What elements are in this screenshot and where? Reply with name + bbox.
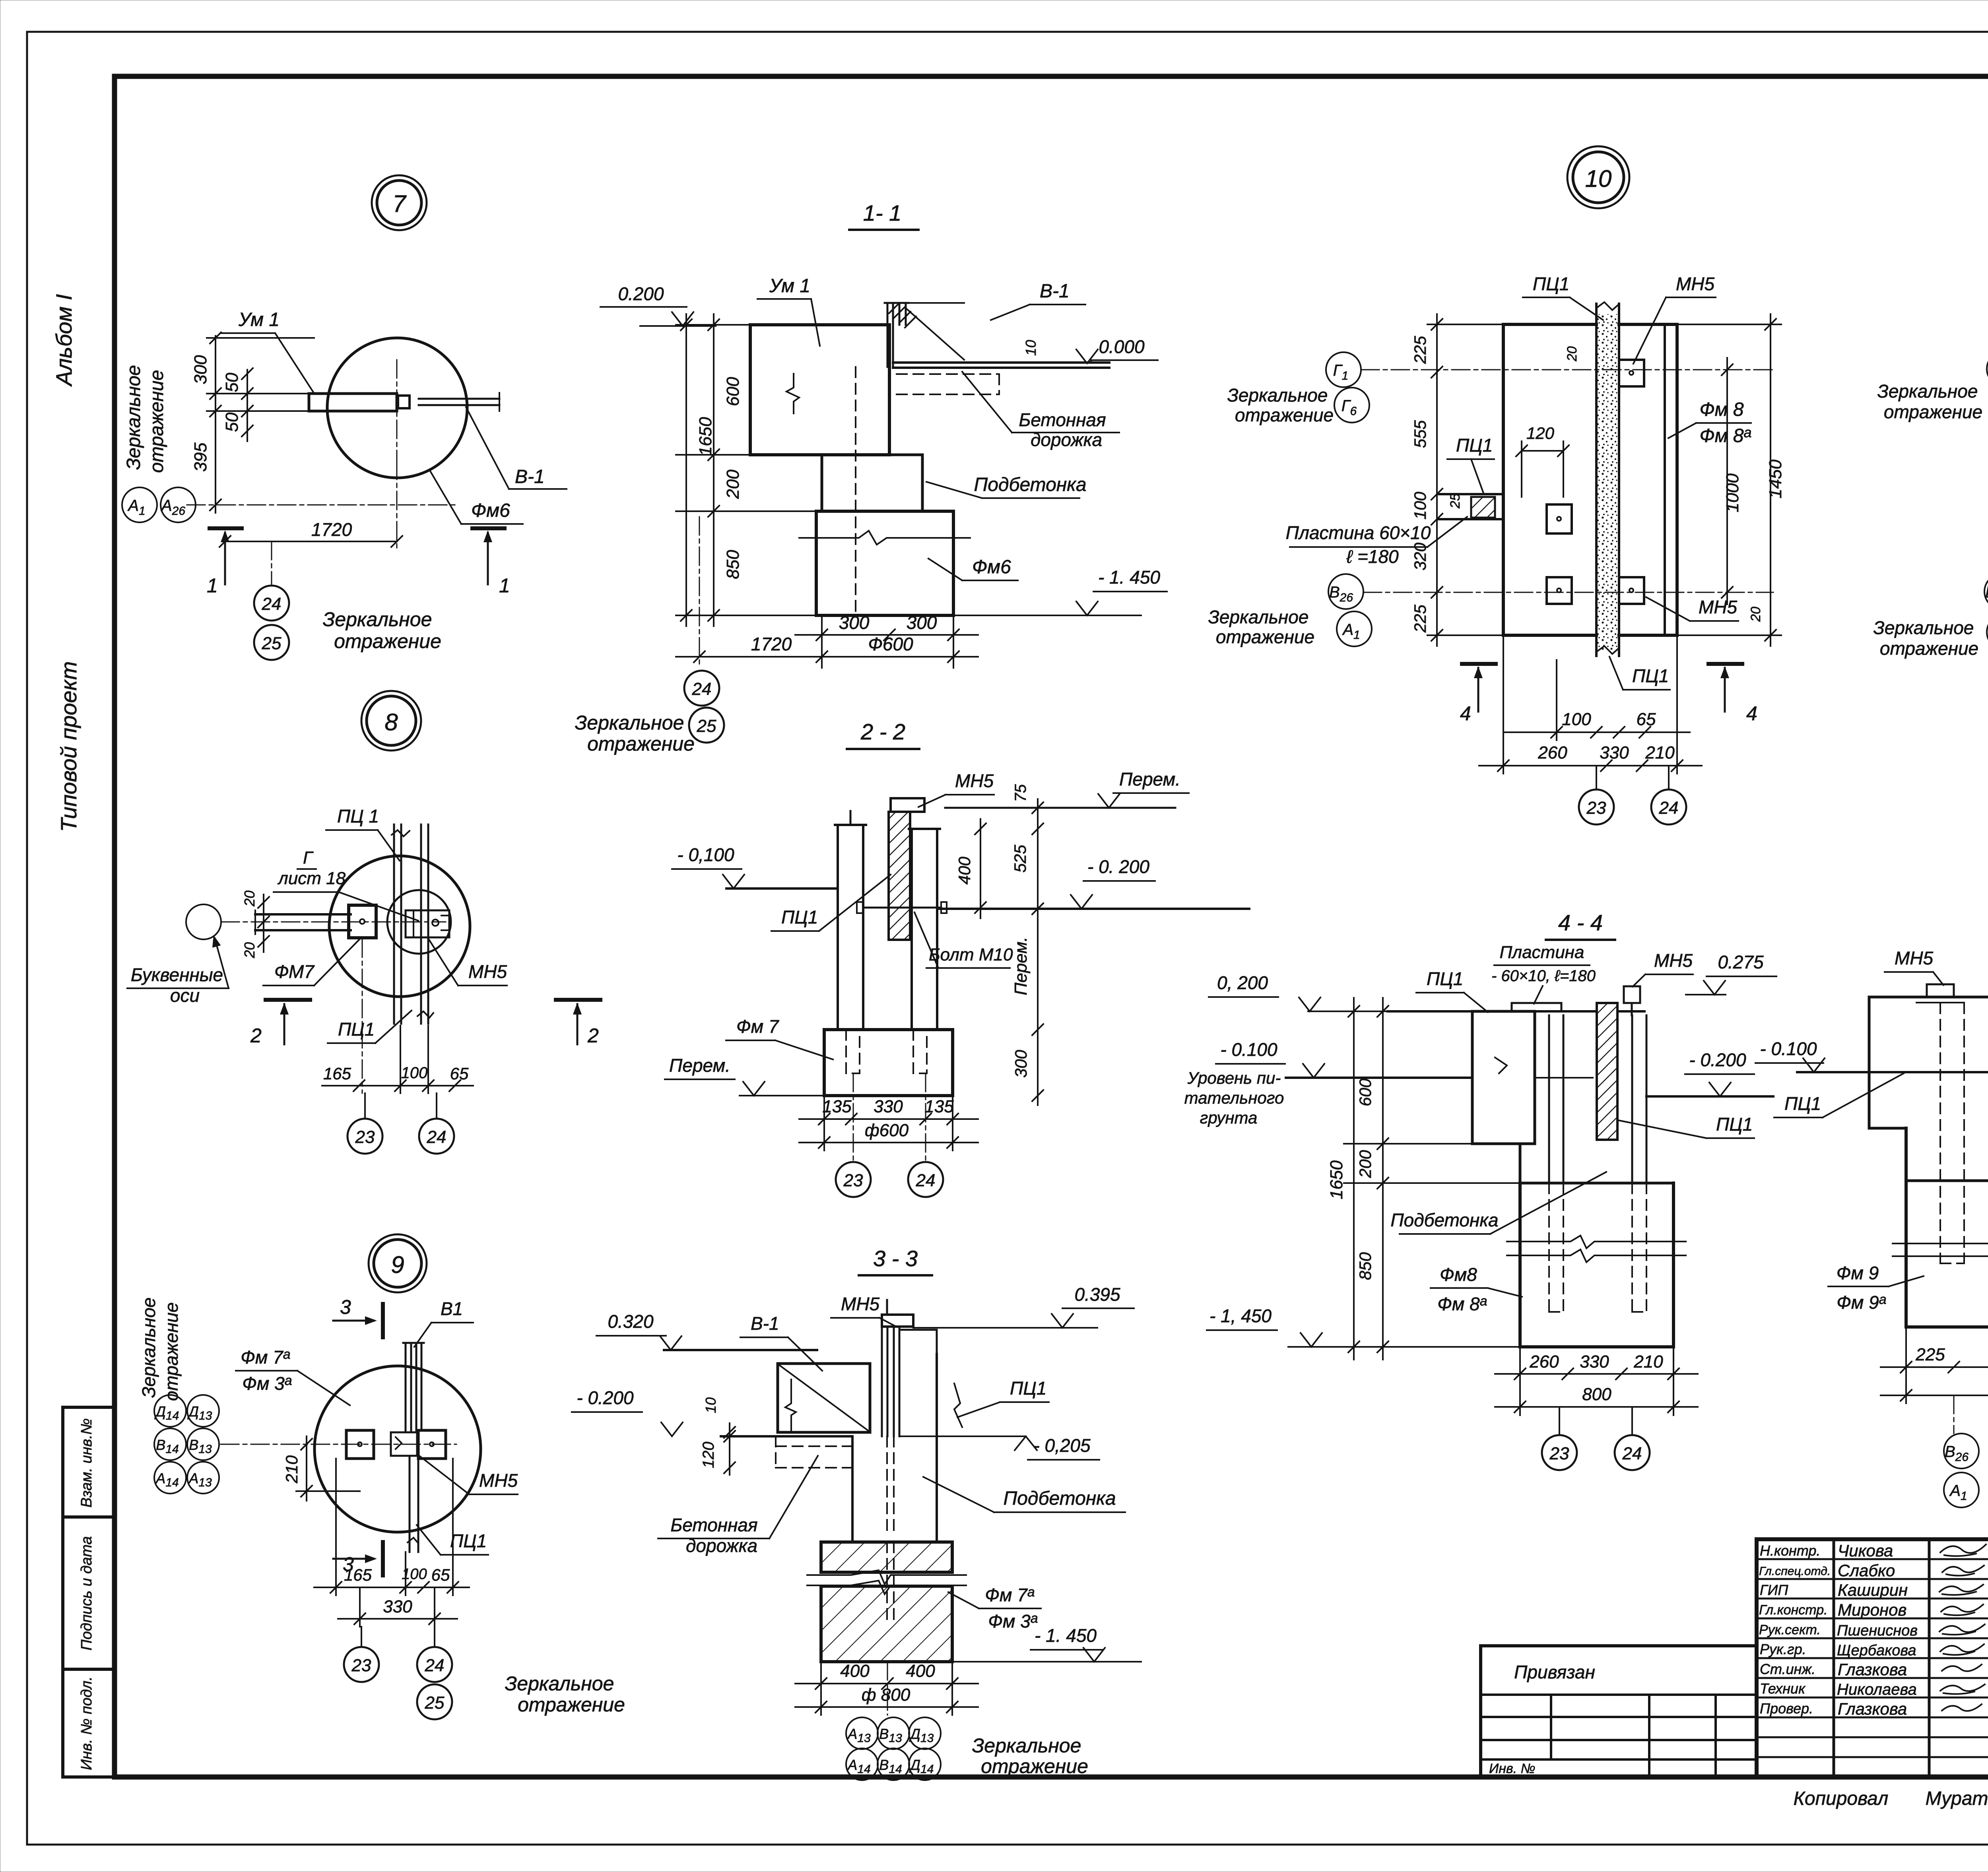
svg-text:Подбетонка: Подбетонка <box>1003 1488 1116 1509</box>
svg-text:210: 210 <box>282 1455 301 1484</box>
svg-text:10: 10 <box>703 1397 719 1413</box>
фундамент Фм7а (3-3) hatched <box>807 1542 966 1662</box>
label МН5 top (узел 10) <box>1633 274 1716 364</box>
svg-text:1: 1 <box>499 574 510 597</box>
dim 75 (2-2) <box>1012 784 1043 835</box>
профиль Ум1 (bar plan) <box>309 360 499 461</box>
dim 120 (узел 10) <box>1516 424 1569 497</box>
level 0.320 (3-3) <box>596 1311 817 1350</box>
dim 165/100/65 (узел 9) <box>314 1459 469 1595</box>
svg-text:Зеркальное: Зеркальное <box>1873 617 1974 638</box>
svg-text:555: 555 <box>1411 420 1429 448</box>
svg-text:В1: В1 <box>441 1298 463 1319</box>
svg-text:65: 65 <box>431 1565 450 1584</box>
svg-text:9: 9 <box>391 1251 404 1278</box>
svg-text:600: 600 <box>1356 1078 1375 1106</box>
svg-text:Фм 8а: Фм 8а <box>1699 424 1751 446</box>
svg-text:400: 400 <box>906 1661 935 1681</box>
text зеркальное отражение (узел 9 bottom) <box>505 1672 625 1716</box>
svg-text:1- 1: 1- 1 <box>863 200 902 225</box>
svg-text:25: 25 <box>697 716 716 736</box>
svg-text:А1: А1 <box>1342 621 1360 642</box>
svg-text:ПЦ1: ПЦ1 <box>1427 968 1463 989</box>
svg-text:Глазкова: Глазкова <box>1838 1660 1907 1679</box>
svg-text:Г1: Г1 <box>1333 362 1348 382</box>
svg-text:7: 7 <box>392 190 407 217</box>
detail circle узел 8 <box>329 856 470 997</box>
svg-text:1: 1 <box>207 574 218 597</box>
svg-text:0, 200: 0, 200 <box>1217 972 1268 993</box>
svg-text:10: 10 <box>1023 340 1039 356</box>
svg-text:Ст.инж.: Ст.инж. <box>1760 1661 1815 1677</box>
svg-text:1650: 1650 <box>1327 1160 1346 1199</box>
bubble 23 (4-4) <box>1542 1407 1577 1470</box>
svg-text:В26: В26 <box>1945 1443 1969 1464</box>
svg-text:Подбетонка: Подбетонка <box>974 474 1086 495</box>
svg-text:- 0,205: - 0,205 <box>1033 1435 1091 1456</box>
dim 1000/1450 right (узел 10) <box>1565 314 1785 646</box>
svg-text:Гл.спец.отд.: Гл.спец.отд. <box>1759 1565 1831 1578</box>
text зеркальное отражение (1-1) <box>575 712 695 755</box>
dim 1450 (5-5) <box>1881 1373 1988 1401</box>
пластина 60х10 узла 10 <box>1439 494 1503 519</box>
svg-text:ПЦ1: ПЦ1 <box>1716 1114 1753 1135</box>
label ПЦ1 (узел 9) <box>417 1525 488 1555</box>
svg-text:Взам. инв.№: Взам. инв.№ <box>78 1418 95 1507</box>
svg-text:0.395: 0.395 <box>1074 1284 1120 1305</box>
label Г лист 18 (узел 8) <box>274 848 418 921</box>
svg-text:10: 10 <box>1585 165 1612 192</box>
svg-text:330: 330 <box>383 1597 412 1616</box>
оси Г1/Г6 (узел 10) <box>1326 352 1773 423</box>
svg-text:А14: А14 <box>847 1757 870 1776</box>
svg-text:4 - 4: 4 - 4 <box>1558 910 1603 935</box>
svg-text:Фм 9а: Фм 9а <box>1837 1292 1886 1313</box>
dim 225/1000/225 (5-5) <box>1881 1327 1988 1403</box>
svg-text:0.000: 0.000 <box>1099 336 1145 357</box>
svg-text:Рук.гр.: Рук.гр. <box>1760 1641 1806 1657</box>
svg-text:Ум 1: Ум 1 <box>769 275 810 297</box>
dim chain left узла 10 (225/555/100/320/225) <box>1411 314 1503 646</box>
svg-text:Д14: Д14 <box>154 1403 179 1422</box>
svg-text:Фм 3а: Фм 3а <box>988 1611 1038 1631</box>
section mark 2 (left, узел 8) <box>250 1000 310 1047</box>
svg-text:Н.контр.: Н.контр. <box>1760 1542 1820 1559</box>
svg-text:135: 135 <box>924 1097 954 1116</box>
svg-text:- 0.200: - 0.200 <box>1689 1049 1746 1070</box>
text зеркальное отражение (узел 11 upper) <box>1877 381 1983 422</box>
svg-text:24: 24 <box>1622 1444 1642 1463</box>
svg-text:Слабко: Слабко <box>1838 1561 1895 1580</box>
svg-text:Перем.: Перем. <box>669 1055 730 1076</box>
dim 100/65 (узел 10) <box>1503 660 1690 740</box>
dim 400 (2-2) <box>955 819 986 918</box>
svg-text:ПЦ1: ПЦ1 <box>1010 1378 1046 1399</box>
text зеркальное отражение (узел 10 lower) <box>1208 607 1315 647</box>
label МН5 bottom (узел 10) <box>1646 597 1738 621</box>
detail circle узел 7 <box>327 338 467 478</box>
label ПЦ1 (3-3) <box>954 1378 1049 1427</box>
label Ум 1 (1-1) <box>757 275 820 346</box>
svg-text:Зеркальное: Зеркальное <box>123 365 144 470</box>
dim 10 / 120 (3-3) <box>700 1397 735 1475</box>
ось (letter axis) узел 8 <box>186 904 446 939</box>
бетонная дорожка dashed (3-3) <box>776 1436 858 1468</box>
svg-text:- 0. 200: - 0. 200 <box>1087 856 1149 877</box>
svg-text:отражение: отражение <box>1884 402 1982 422</box>
svg-text:отражение: отражение <box>146 370 167 473</box>
svg-text:Бетонная: Бетонная <box>1019 409 1106 430</box>
svg-text:25: 25 <box>1448 493 1463 509</box>
label ПЦ1 top (узел 10) <box>1523 274 1603 320</box>
svg-text:120: 120 <box>700 1442 717 1469</box>
подбетонка блок (4-4) <box>1507 1183 1686 1347</box>
label Фм8/Фм8а (узел 10) <box>1668 399 1752 446</box>
svg-text:330: 330 <box>1580 1352 1609 1372</box>
svg-text:0.200: 0.200 <box>618 283 664 304</box>
svg-text:225: 225 <box>1411 604 1429 633</box>
level 0.395 (3-3) <box>913 1284 1134 1328</box>
section mark 2 (right, узел 8) <box>556 1000 600 1047</box>
svg-text:А13: А13 <box>847 1726 871 1745</box>
оси В26/А1 (узел 11) <box>1984 574 1988 650</box>
label Болт М10 (2-2) <box>914 912 1013 968</box>
bubble 25 (узел 9) <box>417 1684 452 1719</box>
dim 400/400 (3-3) <box>795 1661 978 1715</box>
svg-text:100: 100 <box>401 1064 428 1082</box>
svg-text:210: 210 <box>1645 743 1675 762</box>
bubble узел 9 <box>369 1234 427 1292</box>
svg-text:Болт М10: Болт М10 <box>929 945 1013 964</box>
svg-text:Инв. № подл.: Инв. № подл. <box>78 1676 95 1770</box>
svg-text:100: 100 <box>402 1566 427 1583</box>
bubble 24 <box>254 541 289 621</box>
svg-text:Г: Г <box>303 848 314 867</box>
level mark 0.200 <box>600 283 716 326</box>
dim ф800 (3-3) <box>795 1685 978 1713</box>
svg-text:грунта: грунта <box>1200 1108 1258 1127</box>
svg-text:Миронов: Миронов <box>1838 1600 1906 1619</box>
bubble узел 7 <box>372 175 427 230</box>
svg-text:3 - 3: 3 - 3 <box>873 1246 918 1271</box>
svg-text:120: 120 <box>1526 424 1555 442</box>
svg-text:Фм 8: Фм 8 <box>1699 399 1743 420</box>
dim chain left 1-1 (600/200/850/1650) <box>676 314 822 626</box>
label В-1 <box>466 407 567 489</box>
svg-text:Д13: Д13 <box>187 1403 212 1422</box>
балка (bar) узел 8 <box>255 910 351 934</box>
svg-text:Перем.: Перем. <box>1119 769 1180 790</box>
svg-text:Зеркальное: Зеркальное <box>972 1734 1081 1757</box>
svg-text:Г6: Г6 <box>1342 397 1357 418</box>
level -1,450 (4-4) <box>1207 1306 1388 1347</box>
inner weld circle узел 8 <box>387 890 451 954</box>
svg-text:Зеркальное: Зеркальное <box>505 1672 614 1695</box>
svg-text:4: 4 <box>1460 702 1471 725</box>
svg-text:23: 23 <box>355 1127 375 1147</box>
label подбетонка (1-1) <box>926 474 1087 498</box>
label ФМ7 (узел 8) <box>263 939 360 985</box>
пластины (узел 9) <box>346 1430 446 1459</box>
dim 1720 узел 7 <box>219 461 402 549</box>
svg-text:ПЦ1: ПЦ1 <box>1632 665 1669 686</box>
bubble 23 (2-2) <box>836 1073 871 1197</box>
svg-text:200: 200 <box>1356 1150 1375 1178</box>
svg-text:- 1. 450: - 1. 450 <box>1098 567 1160 588</box>
svg-text:Бетонная: Бетонная <box>670 1515 757 1535</box>
svg-text:Ф600: Ф600 <box>868 634 913 654</box>
svg-text:Копировал: Копировал <box>1794 1788 1889 1809</box>
svg-text:1650: 1650 <box>696 417 715 456</box>
svg-text:20: 20 <box>241 942 258 958</box>
svg-text:1720: 1720 <box>311 519 352 540</box>
балка В-1 (3-3) <box>778 1364 870 1432</box>
text зеркальное отражение (узел 11 lower) <box>1873 617 1979 659</box>
svg-text:- 0,100: - 0,100 <box>677 844 734 865</box>
svg-text:Провер.: Провер. <box>1760 1700 1813 1717</box>
label МН5 (узел 8) <box>429 939 507 985</box>
svg-text:ф 800: ф 800 <box>862 1685 911 1705</box>
label В-1 (1-1) <box>991 281 1085 320</box>
svg-text:1450: 1450 <box>1766 460 1785 499</box>
привязан box <box>1481 1646 1757 1777</box>
svg-text:А1: А1 <box>127 497 145 518</box>
dim 210 (узел 9) <box>282 1436 360 1501</box>
svg-text:МН5: МН5 <box>955 770 994 791</box>
стойка (узел 9) <box>403 1343 424 1552</box>
level -0.200 (4-4) <box>1646 1049 1773 1096</box>
level -1.450 (3-3) <box>952 1625 1141 1662</box>
svg-text:ПЦ1: ПЦ1 <box>450 1531 487 1551</box>
svg-text:ℓ =180: ℓ =180 <box>1346 546 1399 567</box>
bubble 24 (2-2) <box>908 1073 943 1197</box>
bubble 23 (узел 8) <box>348 1093 382 1154</box>
svg-text:50: 50 <box>222 412 242 432</box>
svg-text:24: 24 <box>425 1656 445 1675</box>
svg-text:МН5: МН5 <box>1895 948 1934 968</box>
колонна В-1 (1-1) <box>885 303 964 367</box>
svg-text:20: 20 <box>1565 346 1580 362</box>
svg-text:330: 330 <box>874 1097 903 1116</box>
svg-text:Чикова: Чикова <box>1838 1541 1893 1560</box>
svg-text:260: 260 <box>1529 1352 1559 1372</box>
svg-text:24: 24 <box>692 679 712 699</box>
label ПЦ1 (2-2) <box>771 875 891 931</box>
label ПЦ1 mid (узел 10) <box>1447 435 1494 494</box>
svg-text:24: 24 <box>1659 798 1679 818</box>
закладные детали МН5 узла 10 <box>1547 360 1644 604</box>
label ПЦ1 bottom (узел 8) <box>328 1011 412 1043</box>
svg-text:Рук.сект.: Рук.сект. <box>1759 1622 1821 1637</box>
label бетонная дорожка (1-1) <box>962 372 1119 450</box>
анкерные болты dashed (5-5) <box>1940 1003 1988 1263</box>
стойка ПЦ1 (строка) узла 10 <box>1596 302 1619 656</box>
level 0,200 (4-4) <box>1209 972 1388 1011</box>
svg-text:Зеркальное: Зеркальное <box>1877 381 1978 402</box>
стеновые панели узла 10 <box>1503 324 1677 635</box>
svg-text:Перем.: Перем. <box>1011 937 1031 995</box>
svg-text:Ум 1: Ум 1 <box>238 309 280 330</box>
level Перем. top (2-2) <box>945 769 1189 808</box>
svg-text:65: 65 <box>1637 710 1656 729</box>
dim 135/330/135 (2-2) <box>799 1096 978 1150</box>
верх конструкции (4-4) <box>1388 986 1644 1015</box>
title 3-3 <box>859 1246 932 1275</box>
svg-text:Зеркальное: Зеркальное <box>1208 607 1309 627</box>
svg-text:А1: А1 <box>1949 1482 1967 1503</box>
level Перем. left (2-2) <box>665 1055 824 1096</box>
svg-text:Зеркальное: Зеркальное <box>138 1298 159 1398</box>
bubble узел 10 <box>1567 146 1629 208</box>
svg-text:ПЦ 1: ПЦ 1 <box>337 806 379 826</box>
стойки и пластина (2-2) <box>835 798 947 1028</box>
title block texts: roles <box>1759 1542 1831 1717</box>
svg-text:65: 65 <box>450 1064 469 1083</box>
svg-text:отражение: отражение <box>587 733 695 755</box>
svg-text:отражение: отражение <box>1880 638 1978 659</box>
label ПЦ1 top (узел 8) <box>326 806 400 861</box>
svg-text:24: 24 <box>262 594 282 614</box>
label буквенные оси (узел 8) <box>127 934 229 1006</box>
svg-text:ПЦ1: ПЦ1 <box>781 907 818 927</box>
svg-text:В26: В26 <box>1329 584 1353 604</box>
svg-text:А13: А13 <box>188 1470 212 1489</box>
svg-text:300: 300 <box>191 355 210 384</box>
svg-text:Техник: Техник <box>1760 1680 1806 1697</box>
svg-text:2 - 2: 2 - 2 <box>860 719 905 744</box>
title block: signatures squiggles <box>1939 1544 1986 1711</box>
level -0.200 (2-2) <box>937 856 1249 909</box>
svg-text:Зеркальное: Зеркальное <box>1227 385 1328 405</box>
label МН5 (4-4) <box>1633 950 1693 987</box>
svg-text:Типовой проект: Типовой проект <box>56 661 81 832</box>
svg-text:260: 260 <box>1538 743 1567 762</box>
bubble 25 (1-1) <box>689 708 724 743</box>
стойка и оголовок (3-3) <box>882 1300 937 1436</box>
label Фм6 (1-1) <box>928 557 1018 580</box>
svg-text:25: 25 <box>425 1693 445 1713</box>
svg-text:Альбом I: Альбом I <box>51 294 76 387</box>
svg-text:23: 23 <box>351 1656 371 1675</box>
level -0,100 (2-2) <box>672 844 838 888</box>
axis line А <box>122 487 457 522</box>
label подбетонка (4-4) <box>1390 1172 1606 1234</box>
svg-text:отражение: отражение <box>334 630 441 652</box>
title block texts: names <box>1837 1541 1918 1718</box>
грунт слева / -0.100 (5-5) <box>1755 1038 1988 1072</box>
svg-text:330: 330 <box>1600 743 1629 762</box>
svg-text:Фм8: Фм8 <box>1440 1264 1477 1285</box>
bubble 24 (узел 9) <box>417 1627 452 1682</box>
bubble 24 (узел 10) <box>1651 766 1686 824</box>
svg-text:лист 18: лист 18 <box>277 869 346 888</box>
svg-text:23: 23 <box>1549 1444 1569 1463</box>
svg-text:300: 300 <box>839 612 870 633</box>
svg-text:Каширин: Каширин <box>1838 1581 1908 1599</box>
dim Ф600 (2-2) <box>799 1121 978 1148</box>
label бетонная дорожка (3-3) <box>658 1456 818 1556</box>
svg-text:Инв. №: Инв. № <box>1489 1761 1536 1776</box>
svg-text:1720: 1720 <box>751 634 792 654</box>
svg-text:2: 2 <box>587 1024 599 1047</box>
dim 525 / Перем / 300 (2-2) <box>1011 835 1043 1105</box>
оси В26/А1 (5-5) <box>1944 1395 1979 1507</box>
label Ум 1 <box>221 309 314 393</box>
text зеркальное отражение (узел 7 left, rotated) <box>123 365 167 473</box>
svg-text:ФМ7: ФМ7 <box>274 961 315 982</box>
svg-text:В14: В14 <box>156 1437 179 1456</box>
svg-text:525: 525 <box>1011 844 1029 873</box>
level 0.275 (4-4) <box>1686 952 1776 995</box>
floor slab 1-1 <box>893 340 1109 394</box>
text зеркальное отражение (узел 10 upper) <box>1227 385 1334 425</box>
label подбетонка (3-3) <box>923 1477 1125 1512</box>
label МН5 (узел 9) <box>418 1455 518 1494</box>
svg-text:Фм 8а: Фм 8а <box>1437 1294 1487 1314</box>
dim 1720 / Ф600 (1-1) <box>676 517 978 668</box>
svg-text:Подпись и дата: Подпись и дата <box>78 1536 95 1650</box>
svg-text:- 0.200: - 0.200 <box>577 1387 634 1408</box>
section mark 4 (right, узел 10) <box>1708 664 1757 725</box>
title 4-4 <box>1546 910 1615 940</box>
svg-text:В-1: В-1 <box>1040 281 1070 302</box>
svg-text:МН5: МН5 <box>468 961 507 982</box>
ось горизонтальная (узел 9) <box>221 1444 456 1445</box>
svg-text:100: 100 <box>1562 710 1591 729</box>
svg-text:320: 320 <box>1411 542 1429 570</box>
svg-text:Привязан: Привязан <box>1514 1662 1595 1682</box>
bubble 24 (1-1) <box>684 671 719 706</box>
dim 800 (4-4) <box>1495 1385 1698 1412</box>
label МН5 (3-3) <box>831 1294 895 1326</box>
label ПЦ1 left (5-5) <box>1774 1073 1904 1117</box>
svg-text:23: 23 <box>843 1171 863 1190</box>
svg-text:200: 200 <box>723 469 743 499</box>
svg-text:Подбетонка: Подбетонка <box>1390 1210 1498 1230</box>
bubble 24 (4-4) <box>1615 1407 1650 1470</box>
section mark 1 (left) <box>207 528 242 597</box>
section mark 3 (bottom, узел 9) <box>333 1542 383 1575</box>
svg-text:Зеркальное: Зеркальное <box>323 608 432 630</box>
label Фм7 (2-2) <box>726 1016 833 1059</box>
svg-text:отражение: отражение <box>518 1694 625 1716</box>
svg-text:Гл.констр.: Гл.констр. <box>1759 1602 1828 1618</box>
svg-text:4: 4 <box>1746 702 1757 725</box>
svg-text:400: 400 <box>840 1661 870 1681</box>
svg-text:165: 165 <box>344 1565 372 1584</box>
svg-text:400: 400 <box>955 856 974 885</box>
label Пластина -60х10 (4-4) <box>1491 943 1596 1004</box>
label Фм6 <box>430 471 523 524</box>
svg-text:- 60×10, ℓ=180: - 60×10, ℓ=180 <box>1491 967 1596 985</box>
section mark 4 (left, узел 10) <box>1460 664 1496 725</box>
svg-text:2: 2 <box>250 1024 262 1047</box>
svg-text:отражение: отражение <box>981 1755 1088 1777</box>
svg-text:МН5: МН5 <box>1699 597 1738 617</box>
svg-text:800: 800 <box>1582 1385 1611 1404</box>
svg-text:Д14: Д14 <box>909 1757 934 1776</box>
svg-text:Д13: Д13 <box>909 1726 934 1745</box>
svg-text:100: 100 <box>1411 491 1429 520</box>
level -0.100 / уровень грунта (4-4) <box>1184 1039 1593 1127</box>
svg-text:210: 210 <box>1633 1352 1663 1372</box>
стойка ПЦ1 узел 8 <box>392 824 433 1024</box>
dim 300/300 (1-1) <box>795 612 978 668</box>
svg-text:МН5: МН5 <box>841 1294 880 1314</box>
dim 330 (узел 9) <box>338 1587 457 1627</box>
title block: main table <box>1757 1539 1988 1777</box>
level mark 0.000 <box>1076 336 1158 363</box>
